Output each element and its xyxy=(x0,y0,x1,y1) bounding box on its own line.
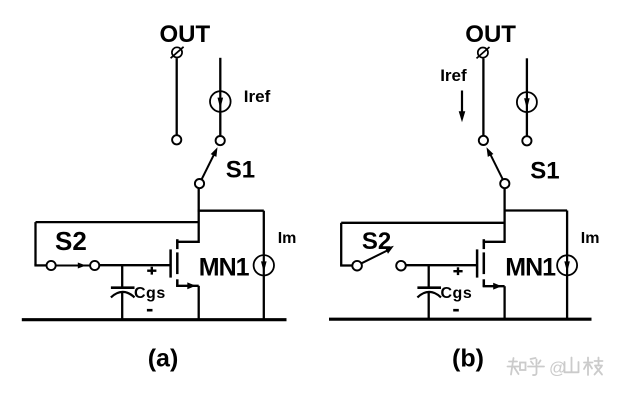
svg-text:Cgs: Cgs xyxy=(134,285,166,302)
current source unlabeled (b) xyxy=(517,92,537,112)
wire Iref to S1 (a) xyxy=(219,112,221,136)
svg-text:(b): (b) xyxy=(452,345,484,373)
wire current source to contact (b) xyxy=(526,112,528,136)
svg-text:MN1: MN1 xyxy=(505,254,556,282)
wire S2 left stub (b) xyxy=(340,264,352,266)
wire OUT column (a) xyxy=(176,58,178,135)
wire OUT column (b) xyxy=(482,59,484,136)
transistor MN1 (b) xyxy=(477,239,505,289)
node right branch contact (b) xyxy=(522,136,531,145)
hu char xyxy=(531,358,536,359)
ground rail (a) xyxy=(22,318,287,321)
svg-text:(a): (a) xyxy=(148,345,179,373)
node OUT bottom contact (a) xyxy=(172,135,181,144)
transistor MN1 (a) xyxy=(171,239,199,289)
wire Im branch horizontal (a) xyxy=(198,210,264,212)
svg-text:OUT: OUT xyxy=(465,21,516,48)
wire capacitor bottom (b) xyxy=(428,293,430,320)
wire Iref branch top (a) xyxy=(219,58,221,92)
label minus (b) xyxy=(453,309,459,312)
svg-text:Im: Im xyxy=(581,230,600,247)
node S1 lower contact (b) xyxy=(500,179,509,188)
svg-text:S2: S2 xyxy=(55,226,87,256)
wire Im branch vertical (b) xyxy=(566,211,568,256)
current source Im (a) xyxy=(254,255,274,275)
terminal OUT (a) xyxy=(171,47,184,58)
label plus (a) xyxy=(147,267,156,275)
zhi char xyxy=(509,361,517,363)
svg-text:MN1: MN1 xyxy=(199,253,250,281)
wire capacitor bottom (a) xyxy=(121,293,123,320)
wire junction vertical (a) xyxy=(198,188,200,243)
wire S2 top horizontal (b) xyxy=(341,222,504,224)
svg-text:OUT: OUT xyxy=(160,21,211,48)
wire Im to ground (b) xyxy=(566,275,568,319)
wire junction vertical (b) xyxy=(503,188,505,243)
node S1 left contact (b) xyxy=(479,136,488,145)
wire S2 top horizontal (a) xyxy=(36,221,199,223)
zhi2 char xyxy=(587,358,589,376)
label minus (a) xyxy=(147,309,153,312)
svg-text:Cgs: Cgs xyxy=(441,285,473,302)
wire gate (a) xyxy=(99,264,170,266)
wire S2 left stub (a) xyxy=(34,264,46,266)
label plus (b) xyxy=(453,267,462,275)
wire Im to ground (a) xyxy=(263,275,265,319)
svg-text:Iref: Iref xyxy=(244,87,271,106)
wire S2 left vertical (a) xyxy=(34,222,36,265)
wire Im branch horizontal (b) xyxy=(504,209,568,211)
current source Iref (a) xyxy=(210,91,231,112)
wire S2 left vertical (b) xyxy=(340,223,342,266)
switch S1 blade (b) xyxy=(487,147,504,180)
svg-text:S1: S1 xyxy=(530,157,559,184)
svg-text:Im: Im xyxy=(278,230,297,247)
svg-text:S1: S1 xyxy=(226,157,255,184)
capacitor Cgs (b) xyxy=(417,288,441,298)
wire capacitor top (a) xyxy=(121,265,123,287)
ground rail (b) xyxy=(329,318,592,321)
svg-text:Iref: Iref xyxy=(440,66,467,85)
node S1 upper contact (a) xyxy=(216,136,225,145)
capacitor Cgs (a) xyxy=(111,288,135,298)
arrow Iref current direction (b) xyxy=(459,91,466,123)
wire capacitor top (b) xyxy=(428,265,430,287)
wire source to ground (b) xyxy=(503,286,505,319)
wire source to ground (a) xyxy=(198,286,200,320)
switch S2 closed (a) xyxy=(47,261,100,270)
switch S2 open (b) xyxy=(352,246,406,271)
current source Im (b) xyxy=(557,255,577,275)
shan char xyxy=(571,358,573,372)
wire gate (b) xyxy=(406,264,477,266)
switch S1 blade (a) xyxy=(201,147,217,180)
wire Im branch vertical (a) xyxy=(263,211,265,256)
node S1 lower contact (a) xyxy=(195,179,204,188)
terminal OUT (b) xyxy=(477,47,490,58)
wire right branch top (b) xyxy=(526,58,528,92)
watermark zhihu @shanzhi xyxy=(508,358,603,378)
